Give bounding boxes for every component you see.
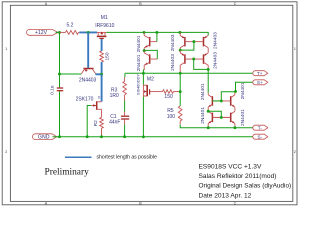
svg-text:T-: T- [258, 125, 263, 130]
label C1 [110, 114, 117, 120]
transistor M2 (SI9460DY shunt N-MOSFET) [143, 85, 152, 97]
junction: output rail / Q7 collector / R5 branch [179, 72, 182, 75]
label 2N4401 (Q9, vertical) [200, 83, 206, 100]
resistor R2 [100, 117, 104, 136]
junction: Q7/Q8 base tie [192, 58, 195, 61]
title text line 1 [199, 163, 262, 170]
svg-text:2N4401: 2N4401 [240, 109, 246, 126]
wire output rail end to R3 [124, 73, 126, 77]
frame row numbers left [5, 47, 7, 154]
wire Q8 collector to NPN mirror [207, 69, 209, 93]
svg-text:1R0: 1R0 [110, 93, 119, 99]
wire left rail upper (node to 0.1u) [59, 32, 61, 87]
title text line 3 [199, 183, 292, 190]
svg-text:1: 1 [294, 47, 296, 51]
junction: ground rail / C1 [123, 135, 126, 138]
transistor Q9 2N4401 (NPN cascode top-left) [208, 93, 221, 111]
wire Q4 emitter to output rail [142, 70, 145, 73]
frame column letters top [45, 2, 237, 6]
wire (blue) M1 gate upper [101, 39, 103, 51]
junction: Q11/Q12 base tie [220, 116, 223, 119]
svg-text:Original Design Salas (diyAudi: Original Design Salas (diyAudio) [199, 183, 292, 190]
junction: ground rail / M2 source [142, 135, 145, 138]
transistor Q4 2N4401 (lower diode) [144, 51, 157, 70]
junction: Q11 collector node [207, 110, 210, 113]
svg-text:T+: T+ [257, 71, 263, 76]
junction: output rail / Q4-M2 branch [142, 72, 145, 75]
legend: shortest-length wire sample [65, 156, 92, 158]
capacitor 0.1u [57, 88, 63, 91]
junction: T- line / Q11 emitter [207, 126, 210, 129]
junction: ground rail / R2 [100, 135, 103, 138]
label 2N4401 (Q4, vertical) [136, 54, 142, 71]
svg-text:S+: S+ [257, 80, 263, 85]
label 44nF [109, 119, 120, 125]
wire ground rail [53, 136, 254, 138]
label 100 [167, 114, 176, 120]
junction: top rail / G-TL emitter [178, 31, 181, 34]
svg-text:5.2: 5.2 [67, 23, 74, 29]
capacitor C1 44nF [121, 116, 129, 119]
label 1R0 [110, 93, 119, 99]
pin label D (2SK170 drain) [98, 95, 101, 99]
output flag S+ [253, 80, 268, 85]
wire 2SK170 gate to ground rail [87, 106, 91, 137]
title text line 4 [199, 192, 252, 199]
junction: Q1 base tap [87, 31, 90, 34]
wire (blue) Q1 base [87, 32, 89, 68]
wire R3 to C1 [124, 101, 126, 116]
wire Q5 diode tie (base to collector) [180, 42, 194, 51]
transistor M1 (IRF9610 P-MOSFET) [97, 32, 107, 39]
junction: top rail / TL1 collector [143, 31, 146, 34]
label 2N4401 (Q11, vertical) [200, 107, 206, 124]
svg-text:C: C [234, 202, 237, 206]
svg-text:Salas Reflektor 2011(mod): Salas Reflektor 2011(mod) [199, 173, 277, 180]
transistor Q2 2SK170 (JFET) [91, 101, 102, 110]
junction: Q8 collector node [207, 68, 210, 71]
junction: left rail / Q1 emitter [58, 73, 61, 76]
legend text: shortest length as possible [97, 155, 157, 161]
svg-text:2SK170: 2SK170 [76, 96, 94, 102]
junction: Q9/Q10 base tie [220, 99, 223, 102]
transistor Q3 2N4401 (upper diode) [144, 32, 157, 50]
svg-text:ES9018S VCC +1.3V: ES9018S VCC +1.3V [199, 163, 262, 170]
label 2SK170 [76, 96, 94, 102]
ground flag GND [33, 134, 57, 141]
wire Q4 base tie [144, 50, 157, 59]
resistor R5 [178, 106, 182, 125]
resistor 5.2 [60, 31, 80, 35]
svg-text:SI9460DDY: SI9460DDY [135, 74, 140, 95]
label SI9460DDY (vertical) [135, 74, 140, 95]
text Preliminary [45, 167, 90, 177]
label 2N4403 (Q1) [79, 78, 97, 84]
wire (blue) Q1 collector to gate node [95, 73, 101, 75]
svg-text:2N4403: 2N4403 [170, 34, 176, 51]
wire left rail lower (0.1u to ground rail) [59, 91, 61, 136]
frame outer border [2, 2, 297, 205]
transistor Q1 2N4403 (reference PNP) [81, 69, 95, 74]
label 2N4403 (Q7, vertical) [170, 54, 176, 71]
wire Q11 diode tie [208, 111, 221, 117]
label R5 [167, 108, 174, 114]
label R2 (vertical) [93, 120, 99, 126]
output flag T- [253, 125, 268, 130]
wire output rail [125, 72, 254, 74]
svg-text:C: C [234, 2, 237, 6]
junction: top rail / TL1 base [155, 31, 158, 34]
label 2N4403 (Q5, vertical) [170, 34, 176, 51]
svg-text:Date 2013 Apr. 12: Date 2013 Apr. 12 [199, 192, 252, 199]
label M1 [101, 15, 108, 21]
wire (blue) 5.2 to M1 source [79, 31, 97, 33]
resistor R3 [123, 77, 127, 101]
junction: gate drive node [179, 90, 182, 93]
wire (blue) M1 gate lower [101, 62, 103, 74]
wire output rail to M2 drain [142, 73, 144, 84]
frame inner border [10, 5, 292, 201]
svg-text:2N4401: 2N4401 [240, 82, 246, 99]
resistor 150 (M2 gate) [152, 90, 180, 94]
wire S+ sense [236, 82, 254, 91]
transistor Q12 2N4401 (NPN cascode bottom-right) [221, 111, 235, 128]
label 2N4403 (Q6, vertical) [213, 32, 219, 49]
output flag S- [253, 134, 268, 139]
wire +12V to top rail [56, 31, 60, 33]
junction: T- line / Q12 emitter [233, 126, 236, 129]
svg-text:+12V: +12V [35, 30, 48, 36]
svg-text:shortest length as possible: shortest length as possible [97, 155, 157, 161]
transistor Q7 2N4403 (cascode) [180, 50, 194, 73]
transistor Q11 2N4401 (NPN diode bottom-left) [208, 111, 221, 128]
svg-text:M1: M1 [101, 15, 108, 21]
wire 2SK170 source to R2 [101, 109, 103, 117]
label R3 [111, 88, 118, 94]
label 0.1u (vertical) [49, 85, 55, 95]
wire M2 source to ground rail [142, 97, 144, 137]
label 150 (vertical) [104, 52, 110, 60]
svg-text:2N4403: 2N4403 [213, 32, 219, 49]
svg-text:2N4401: 2N4401 [136, 35, 142, 52]
frame row numbers right [294, 47, 296, 154]
wire top rail (M1 drain to mirror) [106, 32, 208, 35]
wire (blue) node to 2SK170 drain [101, 74, 103, 101]
svg-text:2N4401: 2N4401 [200, 83, 206, 100]
transistor Q5 2N4403 (mirror, diode side) [180, 32, 194, 50]
wire Q9/Q10 base tie to S+ node [212, 92, 235, 101]
transistor Q10 2N4401 (NPN diode top-right) [221, 91, 235, 110]
output flag T+ [253, 71, 268, 76]
svg-text:Preliminary: Preliminary [45, 167, 90, 177]
svg-text:150: 150 [104, 52, 110, 60]
wire R5 to T- line [180, 125, 254, 128]
svg-text:R5: R5 [167, 108, 174, 114]
wire Q11/Q12 base tie [212, 116, 230, 118]
junction: Q5 collector node [179, 49, 182, 52]
svg-text:2N4403: 2N4403 [79, 78, 97, 84]
junction: M1 gate / Q1 collector / JFET drain node [100, 73, 103, 76]
wire gate node to R5 [179, 92, 181, 106]
svg-text:S-: S- [257, 134, 262, 139]
svg-text:IRF9610: IRF9610 [95, 23, 114, 29]
svg-text:2N4401: 2N4401 [136, 54, 142, 71]
junction: Q5/Q6 base tie [192, 40, 195, 43]
title text line 2 [199, 173, 277, 180]
junction: ground rail / left rail [58, 135, 61, 138]
svg-text:1: 1 [5, 47, 7, 51]
label 150 (M2 gate resistor) [164, 94, 173, 100]
svg-text:2: 2 [5, 150, 7, 154]
label M2 [147, 76, 154, 82]
resistor 150 (gate stopper) [100, 51, 104, 62]
wire output rail to gate node [179, 73, 181, 91]
wire Q1 emitter to left rail [60, 73, 82, 75]
svg-text:GND: GND [38, 134, 50, 140]
svg-text:M2: M2 [147, 76, 154, 82]
label 5.2 [67, 23, 74, 29]
label 2N4401 (Q3, vertical) [136, 35, 142, 52]
svg-text:100: 100 [167, 114, 176, 120]
svg-text:2N4403: 2N4403 [170, 54, 176, 71]
junction: Q10 collector / S+ node [234, 90, 237, 93]
label 2N4403 (Q8, vertical) [213, 52, 219, 69]
wire Q3 base tie to rail [156, 32, 158, 41]
svg-text:R2: R2 [93, 120, 99, 126]
label 2N4401 (Q12, vertical) [240, 109, 246, 126]
junction: ground rail / JFET gate [86, 135, 89, 138]
frame column letters bottom [45, 202, 237, 206]
svg-text:2N4401: 2N4401 [200, 107, 206, 124]
wire Q8 diode tie [194, 59, 209, 69]
label IRF9610 [95, 23, 114, 29]
svg-text:0.1u: 0.1u [49, 85, 55, 95]
transistor Q8 2N4403 (cascode, diode side) [194, 53, 209, 70]
svg-text:44nF: 44nF [109, 119, 120, 125]
svg-text:2: 2 [294, 150, 296, 154]
svg-text:150: 150 [164, 94, 173, 100]
transistor Q6 2N4403 (mirror) [194, 36, 208, 53]
supply flag +12V [26, 30, 58, 37]
junction: Q3/Q4 mid node [143, 49, 146, 52]
svg-text:2N4403: 2N4403 [213, 52, 219, 69]
label 2N4401 (Q10, vertical) [240, 82, 246, 99]
wire C1 to ground rail [124, 120, 126, 137]
node: +12V rail junction [58, 31, 61, 34]
